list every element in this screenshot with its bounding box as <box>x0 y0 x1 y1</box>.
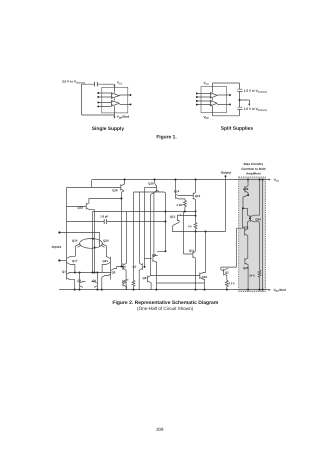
wire tail A <box>92 212 94 273</box>
wire bias feed down <box>221 228 237 269</box>
capacitor C-single <box>95 82 98 87</box>
input pair source dome <box>80 239 103 249</box>
caption Figure 2 <box>112 300 218 311</box>
page number 309 <box>156 427 164 432</box>
label Q14 <box>174 189 180 193</box>
label Q1 <box>62 270 66 274</box>
wire left gate wing <box>75 244 81 257</box>
wire input 1 <box>60 233 99 247</box>
svg-text:Q25: Q25 <box>243 266 249 270</box>
svg-text:Q20: Q20 <box>243 226 249 230</box>
label Q18 <box>77 206 83 210</box>
wire mirror horizontal <box>69 272 111 274</box>
wire r2 bottom <box>195 230 197 232</box>
label VCC single supply <box>117 81 123 86</box>
wire input 2 <box>60 260 66 262</box>
label Q2 <box>111 270 115 274</box>
svg-text:Q13: Q13 <box>195 194 201 198</box>
VCC supply pin vertical inside box <box>114 87 116 113</box>
svg-text:Q2: Q2 <box>111 270 115 274</box>
VCC rail vertical split supplies <box>212 83 214 116</box>
wire mid vertical a <box>139 192 141 263</box>
capacitor C1 wire <box>67 221 166 223</box>
svg-text:Q19: Q19 <box>72 239 78 243</box>
svg-text:Output: Output <box>221 171 232 175</box>
wire q16 base feed <box>67 187 121 189</box>
resistor R4 2.2k <box>225 280 228 289</box>
label 1.5V to VCC(max) <box>244 89 267 94</box>
wire bias vertical right <box>259 180 261 271</box>
wire r1 bottom <box>184 208 186 212</box>
wire q9 top lead join <box>157 250 165 252</box>
VDD arrow main <box>269 289 272 291</box>
label VCC split supplies <box>203 81 209 86</box>
node split mid <box>239 99 241 101</box>
ground pin single supply <box>114 113 116 117</box>
transistor Q23 <box>245 229 248 258</box>
wire q16 collector to q18 <box>89 191 124 267</box>
input pins B1 <box>197 93 211 97</box>
label VDD/Gnd main <box>273 288 286 293</box>
svg-text:3.0 V to VCC(max): 3.0 V to VCC(max) <box>62 80 85 85</box>
input terminal 1 <box>58 231 60 233</box>
label Q12 <box>170 215 176 219</box>
label Inputs <box>52 245 62 249</box>
transistor Q15 <box>151 184 160 195</box>
svg-text:Inputs: Inputs <box>52 245 62 249</box>
wire second stage horizontal <box>173 231 226 233</box>
svg-text:VCC: VCC <box>203 81 209 86</box>
label Q21 <box>103 259 109 263</box>
input pins A1 <box>98 93 111 97</box>
svg-text:Q21: Q21 <box>103 259 109 263</box>
wire left vertical <box>66 188 68 280</box>
svg-text:Split Supplies: Split Supplies <box>221 126 254 132</box>
wire q16 emitter <box>124 180 126 185</box>
wire q8 output horizontal <box>151 275 200 277</box>
wire q16b collector <box>205 232 207 273</box>
wire bias vertical far right <box>262 180 264 290</box>
resistor R1 4k <box>183 200 186 208</box>
svg-text:Q12: Q12 <box>170 215 176 219</box>
transistor Q18 <box>86 203 94 210</box>
transistor Q7 <box>139 263 142 289</box>
transistor Q11 <box>193 251 196 258</box>
svg-text:Q5: Q5 <box>122 280 126 284</box>
label Q26 <box>225 271 229 275</box>
label R2 <box>188 224 192 228</box>
svg-text:Q16: Q16 <box>112 188 118 192</box>
wire q11 base <box>184 212 193 255</box>
wire q13 emitter <box>195 180 197 193</box>
svg-text:Figure 1.: Figure 1. <box>156 134 177 140</box>
svg-text:Bias Circuitry: Bias Circuitry <box>244 162 264 166</box>
ground branch split supplies <box>240 100 250 104</box>
transistor Q2 <box>102 267 117 290</box>
transistor Q3 <box>80 273 86 290</box>
wire q15 base <box>145 187 157 189</box>
svg-text:Q20: Q20 <box>103 239 109 243</box>
input terminal 2 <box>58 259 60 261</box>
label Q10 <box>189 249 195 253</box>
VCC node arrow single supply <box>114 84 116 87</box>
wire q11 collector down <box>195 258 197 290</box>
transistor Q6 <box>123 263 127 289</box>
wire q22 emitter <box>247 180 249 187</box>
svg-text:Q22: Q22 <box>243 187 249 191</box>
wire q15 left collector vertical <box>154 191 157 256</box>
transistor Q16 <box>121 184 125 191</box>
svg-text:VCC: VCC <box>274 178 280 183</box>
node output terminal <box>225 175 227 177</box>
caption Split Supplies <box>221 126 254 132</box>
svg-text:(One-Half of Circuit Shown): (One-Half of Circuit Shown) <box>137 306 194 311</box>
svg-text:Q15: Q15 <box>148 181 154 185</box>
svg-text:Q18: Q18 <box>77 206 83 210</box>
wire emitter tie horizontal <box>156 282 204 284</box>
wire q14 emitter <box>175 180 177 194</box>
label Q9 <box>152 253 156 257</box>
svg-text:VDD: VDD <box>203 115 209 120</box>
label 3.0V to VCC(max) <box>62 80 85 85</box>
opamp package box split supplies <box>201 87 227 113</box>
label bias circuitry <box>241 162 265 176</box>
VCC arrow main <box>269 179 272 181</box>
resistor R3 <box>132 192 135 290</box>
caption Figure 1 <box>156 134 177 140</box>
label VDD split supplies <box>203 115 209 120</box>
label Q20 <box>103 239 109 243</box>
wire q13 collector column <box>195 200 197 223</box>
transistor Q16b output low <box>200 273 206 290</box>
node tail dots <box>92 238 94 240</box>
label Q4 <box>92 279 96 283</box>
op-amp A1 triangle <box>111 93 119 99</box>
wire q15 collector branches <box>134 192 166 252</box>
svg-text:1.5 V to VDD(max): 1.5 V to VDD(max) <box>244 107 267 112</box>
wire top single supply <box>82 83 115 85</box>
label C1 value <box>100 214 108 218</box>
op-amp B2 triangle <box>210 100 217 106</box>
transistor Q8 <box>147 276 151 290</box>
wire left vertical single supply <box>81 84 83 115</box>
svg-text:Q4: Q4 <box>92 279 96 283</box>
output pin A2 <box>120 103 131 105</box>
transistor Q22 <box>245 186 248 195</box>
svg-text:8 k: 8 k <box>188 224 192 228</box>
transistor Q21 <box>102 256 110 279</box>
wire q18 base <box>67 206 87 208</box>
top rail VCC <box>92 179 268 181</box>
svg-text:1.8 pF: 1.8 pF <box>100 214 108 218</box>
capacitor C1 <box>104 219 106 224</box>
label Q6 <box>122 265 126 269</box>
transistor Q1 <box>67 273 75 290</box>
svg-text:Common to Both: Common to Both <box>241 167 265 171</box>
label Q16b <box>202 275 208 279</box>
transistor Q5 <box>123 280 128 290</box>
svg-text:Q11: Q11 <box>189 249 195 253</box>
wire q18 drain tail B <box>94 210 96 273</box>
output pin B1 <box>217 94 230 96</box>
transistor Q12 <box>173 215 196 232</box>
transistor Q25 <box>245 258 248 290</box>
wire q15 emitter <box>154 180 156 184</box>
svg-text:Q8: Q8 <box>142 276 146 280</box>
label Q17 <box>72 259 78 263</box>
svg-text:1.5 V to VCC(max): 1.5 V to VCC(max) <box>244 89 267 94</box>
svg-text:Q24: Q24 <box>255 217 261 221</box>
wire q22 collector chain <box>243 195 248 208</box>
wire rail-left corner <box>90 180 92 188</box>
svg-text:Amplifiers: Amplifiers <box>246 172 261 176</box>
label Q8 <box>142 276 146 280</box>
input pins B2 <box>197 101 211 105</box>
bias region shaded box <box>239 177 266 292</box>
label Q3 <box>77 279 81 283</box>
svg-text:Q2: Q2 <box>225 271 229 275</box>
svg-text:Q16: Q16 <box>202 275 208 279</box>
transistor Q13 <box>193 193 195 200</box>
wire q9 base <box>145 258 152 260</box>
svg-text:Q14: Q14 <box>174 189 180 193</box>
label Q19 <box>72 239 78 243</box>
label Q25 <box>243 266 249 270</box>
label R1 4k <box>176 203 183 207</box>
capacitor C-split-bottom <box>237 100 242 116</box>
node Q24 base junction <box>249 217 251 219</box>
output pin A1 <box>120 94 131 96</box>
transistor Q4 <box>91 273 97 290</box>
label VDD/Gnd single supply <box>117 115 130 120</box>
resistor R5 24k <box>258 270 261 290</box>
input pins A2 <box>98 102 111 106</box>
svg-text:Q17: Q17 <box>72 259 78 263</box>
wire q8 collector vertical <box>150 195 152 276</box>
op-amp B1 triangle <box>210 93 217 99</box>
transistor Q17 <box>67 256 76 272</box>
label Q15 <box>148 181 154 185</box>
svg-text:VDD/Gnd: VDD/Gnd <box>273 288 286 293</box>
op-amp A2 triangle <box>111 101 119 107</box>
capacitor C-split-top <box>237 83 242 100</box>
wire bias stub vertical <box>237 208 243 228</box>
label Output <box>221 171 232 175</box>
resistor R2 <box>194 222 197 230</box>
node t-dots on 165.8 <box>165 211 167 213</box>
wire bottom single supply <box>82 114 115 116</box>
svg-text:24 k: 24 k <box>249 274 255 278</box>
wire q6 collector vertical <box>126 212 128 264</box>
label R4 2.2k <box>229 281 235 285</box>
label Q16 <box>112 188 118 192</box>
wire bottom split supplies <box>213 115 240 117</box>
node bottom rail dots left <box>74 289 76 291</box>
wire gate drive horizontal <box>93 211 195 213</box>
label Q5 <box>122 280 126 284</box>
wire top split supplies <box>213 82 240 84</box>
svg-text:Q6: Q6 <box>122 265 126 269</box>
svg-text:Q9: Q9 <box>152 253 156 257</box>
wire q14 leads <box>178 196 193 201</box>
transistor Q9 <box>153 255 158 289</box>
label Q7 <box>132 265 136 269</box>
svg-text:VCC: VCC <box>117 81 123 86</box>
svg-text:Q7: Q7 <box>132 265 136 269</box>
svg-text:309: 309 <box>156 427 164 432</box>
transistor Q26 <box>221 269 229 280</box>
label Q22 <box>243 187 249 191</box>
wire output vertical <box>225 176 227 231</box>
wire mid vertical b <box>144 188 146 267</box>
caption Single Supply <box>92 126 125 132</box>
wire right gate wing <box>101 244 107 257</box>
transistor Q24 <box>248 208 260 229</box>
transistor Q14 <box>176 193 179 199</box>
label VCC main <box>274 178 280 183</box>
opamp package box single supply <box>102 87 128 113</box>
svg-text:Q3: Q3 <box>77 279 81 283</box>
svg-text:VDD/Gnd: VDD/Gnd <box>117 115 130 120</box>
label Q23 <box>243 226 249 230</box>
label Q24 <box>255 217 261 221</box>
label R5 24k <box>249 274 255 278</box>
label Q13 <box>195 194 201 198</box>
svg-text:2.2 k: 2.2 k <box>229 281 235 285</box>
label 1.5V to VDD(max) <box>244 107 267 112</box>
svg-text:4 kΩ: 4 kΩ <box>176 203 183 207</box>
wire q11 emitter up <box>195 232 197 252</box>
svg-text:Q1: Q1 <box>62 270 66 274</box>
output pin B2 <box>217 103 230 105</box>
bottom rail VDD <box>59 289 269 291</box>
svg-text:Single Supply: Single Supply <box>92 126 125 132</box>
